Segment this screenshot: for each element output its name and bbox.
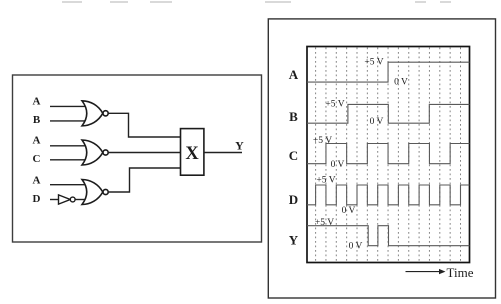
svg-text:+5 V: +5 V: [313, 136, 332, 146]
svg-text:A: A: [33, 175, 41, 187]
wire inverter to gate 3: [75, 199, 86, 201]
wire D to inverter: [50, 199, 59, 201]
svg-text:C: C: [289, 148, 298, 163]
waveform D: [307, 185, 470, 205]
wire from U2 output: [108, 152, 180, 154]
wire A to gate 3: [50, 184, 86, 186]
svg-text:+5 V: +5 V: [315, 218, 334, 228]
faint cropped text remnants at top: [62, 1, 451, 3]
svg-text:Time: Time: [447, 265, 474, 280]
wire B to gate 1: [50, 120, 86, 122]
svg-text:+5 V: +5 V: [325, 99, 344, 109]
NOR gate U1 (inputs A,B): [82, 101, 108, 126]
svg-text:Y: Y: [289, 233, 299, 248]
svg-text:0 V: 0 V: [342, 206, 356, 216]
svg-text:B: B: [289, 109, 298, 124]
dashed time gridlines: [316, 48, 461, 262]
timing plot frame: [307, 47, 470, 263]
svg-text:0 V: 0 V: [370, 117, 384, 127]
svg-text:D: D: [33, 193, 41, 205]
output wire Y: [204, 152, 242, 154]
svg-text:C: C: [33, 153, 41, 165]
svg-text:A: A: [289, 67, 299, 82]
svg-text:A: A: [33, 96, 41, 108]
block X: [181, 129, 204, 176]
left schematic enclosure box: [13, 75, 262, 242]
wire from U1 output: [108, 113, 180, 137]
waveform C: [307, 144, 470, 164]
svg-text:B: B: [33, 114, 41, 126]
svg-text:0 V: 0 V: [394, 77, 408, 87]
waveform B: [307, 104, 470, 123]
waveform Y: [307, 226, 470, 246]
wire A to gate 2: [50, 145, 86, 147]
waveform A: [307, 62, 470, 82]
NOR gate U2 (inputs A,C): [82, 140, 108, 165]
svg-text:0 V: 0 V: [331, 160, 345, 170]
time axis arrow: [406, 269, 446, 274]
svg-text:+5 V: +5 V: [316, 176, 335, 186]
NOR gate U3 (inputs A,D): [82, 180, 108, 205]
svg-text:0 V: 0 V: [349, 242, 363, 252]
svg-text:D: D: [289, 192, 298, 207]
wire from U3 output: [108, 168, 180, 192]
svg-text:Y: Y: [235, 139, 244, 153]
svg-text:A: A: [33, 135, 41, 147]
svg-text:X: X: [185, 144, 199, 164]
wire C to gate 2: [50, 159, 86, 161]
svg-text:+5 V: +5 V: [364, 57, 383, 67]
inverter U4 on input D: [59, 195, 76, 204]
wire A to gate 1: [50, 105, 86, 107]
timing diagram outer box: [268, 19, 495, 298]
